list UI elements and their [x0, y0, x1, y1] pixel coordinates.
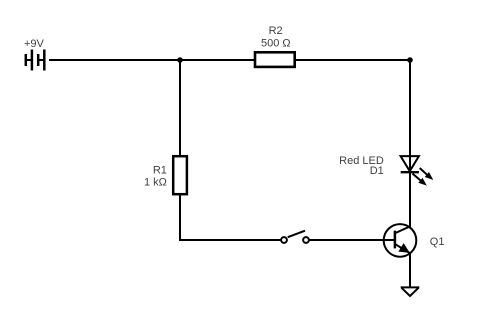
node A junction dot [177, 57, 183, 63]
ground [401, 287, 420, 296]
switch SW1 [281, 231, 309, 243]
node B junction dot [407, 57, 413, 63]
LED D1 [401, 156, 433, 185]
svg-text:1 kΩ: 1 kΩ [144, 176, 167, 188]
wire node B down to LED anode [409, 60, 411, 172]
wire LED cathode to Q1 collector [409, 172, 411, 227]
wire corner to switch [179, 239, 281, 241]
svg-text:+9V: +9V [24, 38, 45, 50]
svg-text:D1: D1 [370, 165, 384, 177]
wire battery to node A [49, 59, 254, 61]
wire R1 down to corner [179, 196, 181, 241]
resistor R2 [255, 52, 295, 67]
battery V1 +9V [26, 50, 45, 71]
svg-text:R1: R1 [153, 165, 167, 177]
transistor Q1 [384, 224, 417, 257]
wire Q1 emitter to ground [409, 253, 411, 287]
wire node A to R2 is part of above; wire R2 to node B [296, 59, 410, 61]
svg-text:Q1: Q1 [430, 236, 445, 248]
wire node A down to R1 [179, 60, 181, 155]
svg-text:500 Ω: 500 Ω [261, 37, 291, 49]
wire switch to Q1 base [309, 239, 394, 241]
svg-text:R2: R2 [269, 25, 283, 37]
resistor R1 [173, 156, 187, 194]
